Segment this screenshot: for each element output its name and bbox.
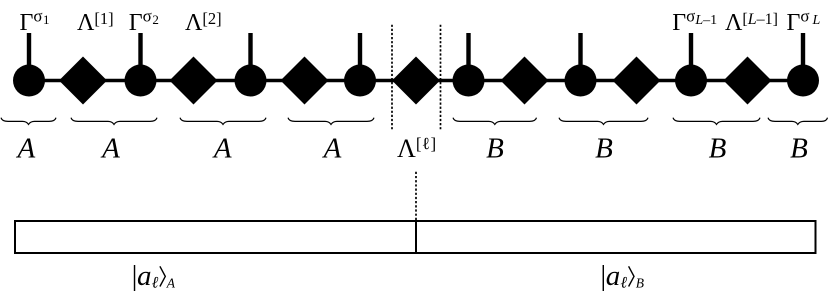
box divider (415, 221, 417, 253)
tensor Gamma1 circle (13, 65, 45, 97)
tensor Gamma6 circle (565, 65, 597, 97)
leg of tensor G6 (578, 33, 582, 70)
box state bar (15, 221, 816, 253)
dotted cut line right (440, 25, 442, 130)
svg-text:A: A (322, 133, 342, 165)
svg-text:B: B (486, 133, 504, 165)
tensor Gamma2 circle (125, 65, 157, 97)
leg of tensor G5 (466, 33, 470, 70)
brace under A4 (288, 118, 374, 125)
rangle B (629, 266, 634, 286)
svg-text:Λ[1]: Λ[1] (77, 9, 114, 36)
tensor Gamma3 circle (235, 65, 267, 97)
brace under A2 (71, 118, 157, 125)
svg-text:Λ[ℓ]: Λ[ℓ] (397, 134, 437, 163)
leg of tensor G3 (248, 33, 252, 70)
leg of tensor G1 (27, 33, 31, 70)
svg-text:a: a (137, 260, 152, 292)
wire main chain (29, 79, 803, 83)
svg-text:Λ[L–1]: Λ[L–1] (725, 10, 778, 36)
brace under A1 (1, 118, 56, 125)
tensor Gamma8 circle (787, 65, 819, 97)
brace under B2 (559, 118, 648, 125)
svg-text:A: A (15, 133, 35, 165)
svg-text:B: B (595, 133, 613, 165)
svg-text:Γσ2: Γσ2 (129, 7, 159, 37)
svg-text:A: A (166, 276, 176, 291)
leg of tensor G4 (358, 33, 362, 70)
rangle A (160, 266, 165, 286)
brace under B4 (768, 118, 828, 125)
brace under A3 (180, 118, 266, 125)
svg-text:B: B (636, 276, 644, 291)
tensor Lambda6 diamond (613, 57, 661, 105)
dotted cut line left (391, 25, 393, 130)
tensor Lambda2 diamond (170, 57, 218, 105)
brace under B1 (453, 118, 537, 125)
tensor Gamma5 circle (453, 65, 485, 97)
dotted bond line to box (415, 172, 417, 220)
tensor Lambda1 diamond (59, 57, 107, 105)
tensor Gamma7 circle (675, 65, 707, 97)
svg-text:A: A (212, 133, 232, 165)
brace under B3 (673, 118, 760, 125)
svg-text:ℓ: ℓ (620, 275, 627, 292)
tensor Gamma4 circle (344, 65, 376, 97)
svg-text:ΓσL: ΓσL (787, 7, 821, 37)
leg of tensor G7 (689, 33, 693, 70)
svg-text:ΓσL–1: ΓσL–1 (672, 7, 717, 37)
svg-text:ℓ: ℓ (152, 275, 159, 292)
svg-text:A: A (100, 133, 120, 165)
svg-text:a: a (606, 260, 621, 292)
tensor Lambda5 diamond (501, 57, 549, 105)
svg-text:Γσ1: Γσ1 (20, 7, 50, 37)
tensor Lambda7 diamond (724, 57, 772, 105)
tensor Lambda3 diamond (281, 57, 329, 105)
leg of tensor G8 (801, 33, 805, 70)
svg-text:B: B (790, 133, 808, 165)
leg of tensor G2 (138, 33, 142, 70)
svg-text:Λ[2]: Λ[2] (185, 9, 222, 36)
tensor Lambda-ell central diamond (392, 57, 440, 105)
svg-text:B: B (709, 133, 727, 165)
